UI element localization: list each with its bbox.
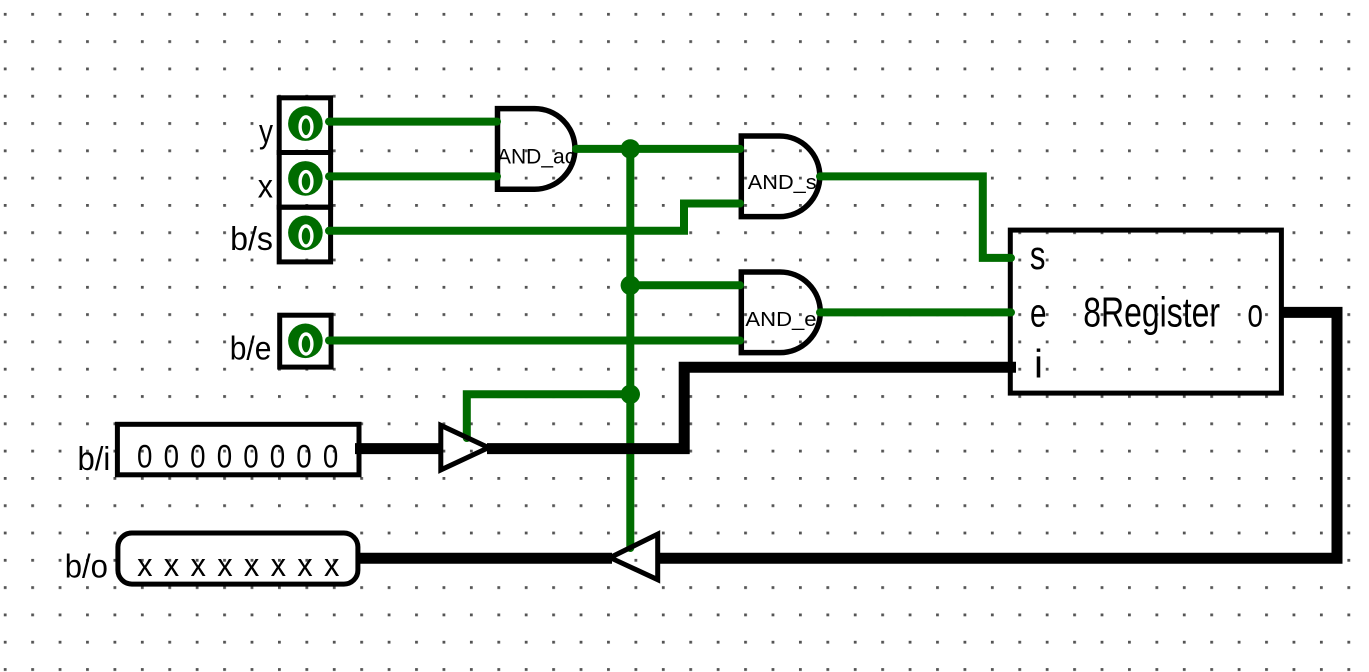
junction dot 2: [621, 276, 640, 295]
input x box: [279, 153, 330, 208]
wire AND_acc out to AND_s in1: [576, 145, 740, 153]
svg-text:x: x: [244, 547, 259, 583]
svg-text:x: x: [258, 168, 274, 205]
input b/e box: [280, 315, 331, 367]
svg-text:x: x: [137, 547, 152, 583]
svg-text:x: x: [297, 547, 312, 583]
AND gate AND_s: [741, 136, 820, 217]
svg-text:s: s: [1030, 234, 1046, 278]
svg-text:b/i: b/i: [78, 440, 111, 477]
svg-text:AND_s: AND_s: [748, 171, 817, 194]
wire AND_s out to register s: [820, 176, 1011, 258]
junction dot 1: [621, 139, 640, 158]
svg-text:AND_e: AND_e: [745, 308, 816, 331]
input y box: [279, 98, 330, 153]
svg-text:0: 0: [217, 439, 232, 475]
AND gate AND_e: [741, 272, 820, 353]
svg-text:e: e: [1030, 292, 1047, 336]
svg-text:0: 0: [323, 439, 338, 475]
value dot y: [288, 106, 323, 141]
svg-text:8Register: 8Register: [1083, 289, 1220, 336]
svg-text:i: i: [1034, 342, 1043, 386]
svg-text:x: x: [217, 547, 232, 583]
bus register o to tristate2: [659, 312, 1337, 558]
svg-text:x: x: [324, 547, 339, 583]
value dot x: [288, 161, 323, 196]
svg-text:x: x: [164, 547, 179, 583]
input b/i box: [117, 424, 359, 475]
wire junction2 to AND_e in1: [630, 281, 740, 289]
svg-text:o: o: [1247, 292, 1263, 336]
AND gate AND_acc: [498, 109, 575, 190]
svg-text:0: 0: [243, 439, 258, 475]
junction dot 3: [621, 385, 640, 404]
tri-state driver T2 (left): [610, 534, 658, 580]
value dot b/s: [288, 216, 323, 251]
svg-text:b/o: b/o: [65, 547, 108, 584]
svg-text:0: 0: [190, 439, 205, 475]
wire x input to AND_acc in2: [329, 172, 497, 180]
wire junction3 to tristate1 enable: [467, 394, 631, 438]
svg-text:0: 0: [296, 439, 311, 475]
input b/s box: [279, 207, 330, 262]
svg-text:0: 0: [270, 439, 285, 475]
bus tristate1 out to register i: [487, 367, 1016, 448]
svg-text:x: x: [191, 547, 206, 583]
output b/o box: [118, 533, 358, 584]
wire b/e to AND_e in2: [329, 337, 740, 345]
svg-text:b/e: b/e: [230, 330, 272, 367]
wire b/s to AND_s in2: [329, 204, 740, 231]
bus b/i to tristate1: [355, 443, 441, 454]
wire vertical main net: [626, 149, 634, 548]
svg-text:0: 0: [137, 439, 152, 475]
value dot b/e: [288, 324, 323, 359]
svg-text:x: x: [271, 547, 286, 583]
svg-text:y: y: [259, 112, 273, 149]
tri-state driver T1 (right): [441, 425, 489, 470]
wire y input to AND_acc in1: [329, 118, 497, 126]
svg-text:b/s: b/s: [230, 220, 273, 257]
wire AND_e out to register e: [820, 308, 1011, 316]
bus tristate2 out to b/o: [357, 553, 612, 564]
register U1 8Register box: [1010, 230, 1281, 393]
svg-text:0: 0: [164, 439, 179, 475]
